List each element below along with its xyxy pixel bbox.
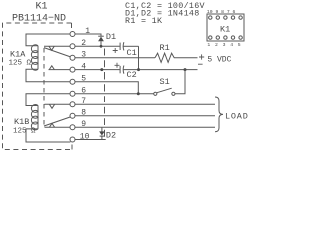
wire pin 9 left stub xyxy=(45,126,71,128)
wire pin 3 line to R1 xyxy=(75,57,155,59)
wire pin 2 line xyxy=(75,45,120,47)
contact pin 3 circle xyxy=(70,55,75,60)
svg-text:C1: C1 xyxy=(127,48,137,58)
relay K1 dashed outline xyxy=(3,23,73,150)
wire pin 10 line to D2 xyxy=(75,139,106,141)
svg-text:K1A: K1A xyxy=(10,50,26,60)
svg-text:125 Ω: 125 Ω xyxy=(13,128,36,136)
wire pin 9 line to load xyxy=(75,126,215,128)
pole 2 moving contact tip xyxy=(49,104,54,108)
supply plus terminal xyxy=(199,54,204,59)
wire pin 4 left stub xyxy=(49,69,71,71)
relay K1 dashed outline top hook xyxy=(71,23,73,28)
svg-text:K1: K1 xyxy=(220,24,230,34)
relay K1 package outline xyxy=(207,14,244,41)
contact pin 4 circle xyxy=(70,67,75,72)
svg-text:1 2 3 4 5: 1 2 3 4 5 xyxy=(207,42,241,48)
wire pin 7 line to load xyxy=(75,103,215,105)
svg-text:K1B: K1B xyxy=(14,117,29,127)
switch S1 xyxy=(154,70,185,96)
contact pin 6 circle xyxy=(70,91,75,96)
wire C1 down to line 4 xyxy=(138,46,140,69)
svg-text:10 9 8 7 6: 10 9 8 7 6 xyxy=(207,9,236,15)
coil K1A xyxy=(26,34,70,82)
svg-text:D2: D2 xyxy=(106,131,116,141)
svg-text:S1: S1 xyxy=(160,77,170,87)
coil K1B xyxy=(26,94,70,142)
capacitor C2 xyxy=(120,66,197,74)
contact pin 1 circle xyxy=(70,32,75,37)
svg-text:5 VDC: 5 VDC xyxy=(207,55,231,64)
svg-text:125 Ω: 125 Ω xyxy=(9,60,32,68)
diode D2 xyxy=(99,127,105,139)
pole 1 moving contact tip xyxy=(49,46,54,50)
contact pin 10 circle xyxy=(70,137,75,142)
package top pin circles xyxy=(209,16,243,19)
wire pin 1 to D1 xyxy=(75,34,101,36)
node junction C1 branch on line 4 xyxy=(137,68,140,71)
resistor R1 xyxy=(155,53,198,62)
wire pin 6 line to S1 xyxy=(75,93,154,95)
contact pin 5 circle xyxy=(70,79,75,84)
wire pin 7 left stub xyxy=(45,103,71,105)
contact pin 7 circle xyxy=(70,102,75,107)
svg-text:9: 9 xyxy=(81,120,86,129)
svg-text:5: 5 xyxy=(81,75,86,84)
svg-text:R1 = 1K: R1 = 1K xyxy=(125,16,163,26)
supply minus terminal xyxy=(198,63,203,65)
svg-text:6: 6 xyxy=(81,87,86,96)
svg-text:R1: R1 xyxy=(160,43,170,53)
svg-text:3: 3 xyxy=(81,51,86,60)
svg-text:8: 8 xyxy=(81,109,86,118)
wire pin 5 line down to line 6 xyxy=(75,82,138,94)
svg-text:7: 7 xyxy=(81,97,86,106)
node junction S1 branch on line 4 xyxy=(184,68,187,71)
svg-text:1: 1 xyxy=(85,27,90,36)
svg-text:10: 10 xyxy=(80,132,90,141)
svg-text:4: 4 xyxy=(81,63,86,72)
svg-text:C2: C2 xyxy=(127,70,137,80)
pole 2 wiper blade xyxy=(44,117,71,126)
contact pin 8 circle xyxy=(70,113,75,118)
node junction D1 anode xyxy=(100,45,103,48)
wire pin 4 line xyxy=(75,69,120,71)
relay K1 dashed outline right edge xyxy=(104,49,106,137)
pole 1 common stub xyxy=(44,45,70,47)
contact pin 9 circle xyxy=(70,125,75,130)
svg-text:2: 2 xyxy=(81,39,86,48)
package bottom pin circles xyxy=(209,36,243,39)
pole 2 normally-open contact tip xyxy=(49,123,54,127)
capacitor C1 plus sign xyxy=(113,48,118,53)
svg-text:K1: K1 xyxy=(36,2,48,13)
svg-text:D1: D1 xyxy=(106,32,116,42)
pole 1 wiper blade xyxy=(44,48,71,57)
node junction on line 4 xyxy=(100,68,103,71)
relay K1 dashed outline bottom hook xyxy=(71,145,73,150)
diode D1 xyxy=(98,36,104,46)
svg-text:LOAD: LOAD xyxy=(225,111,249,121)
mechanical linkage dashed line xyxy=(43,48,45,126)
wire pin 8 line to load xyxy=(75,115,215,117)
contact pin 2 circle xyxy=(70,44,75,49)
pole 1 normally-open contact tip xyxy=(49,66,54,70)
capacitor C2 plus sign xyxy=(115,63,120,68)
load bracket xyxy=(215,97,223,132)
capacitor C1 xyxy=(120,42,138,50)
node junction line5 to line6 xyxy=(137,92,140,95)
